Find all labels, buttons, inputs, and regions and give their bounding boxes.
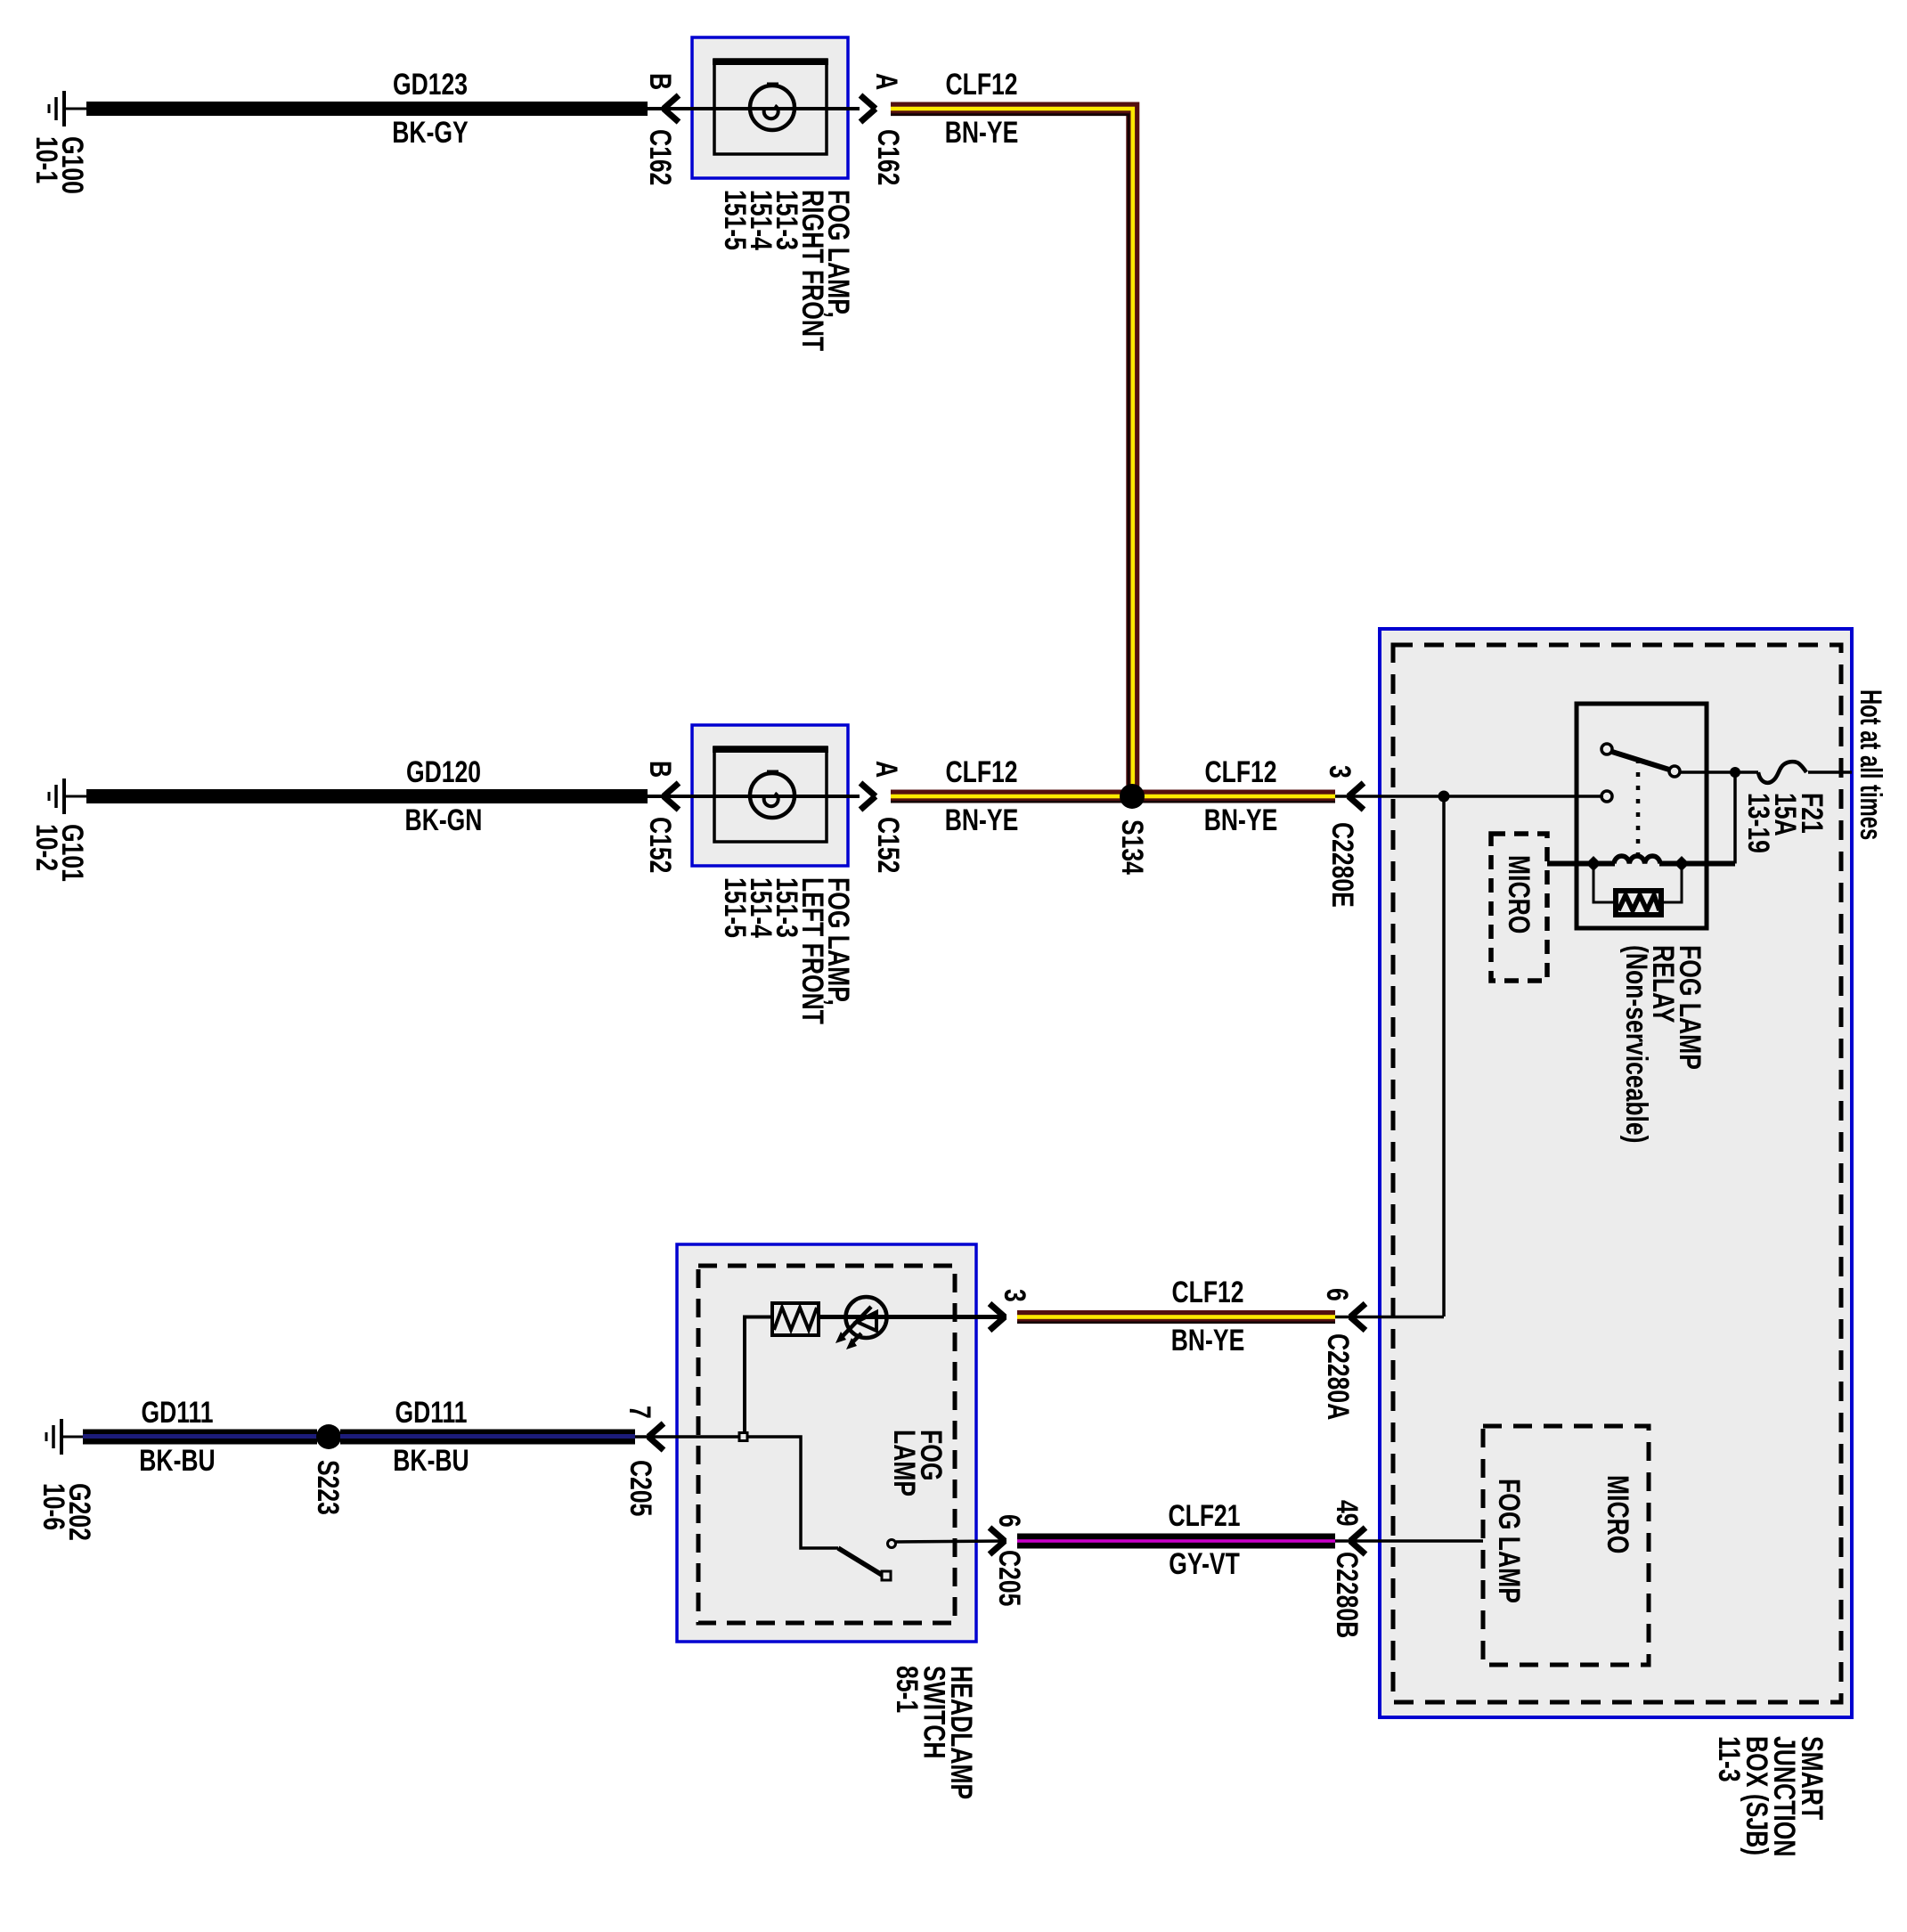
- svg-text:C2280E: C2280E: [1325, 822, 1359, 908]
- switch resistor: [772, 1303, 819, 1335]
- connector arrow B C152: [664, 783, 679, 810]
- svg-text:C162: C162: [871, 129, 905, 185]
- svg-text:B: B: [643, 73, 677, 90]
- node at fuse branch: [1730, 767, 1740, 778]
- connector arrow 3 C2280E: [1335, 795, 1380, 798]
- wire GD123 BK-GY: [86, 102, 648, 116]
- switch indicator lamp: [835, 1297, 887, 1349]
- svg-text:C162: C162: [643, 129, 677, 185]
- ground G101: [49, 779, 87, 814]
- wire to fog lamp left (thin): [648, 795, 860, 798]
- svg-text:MICRO: MICRO: [1502, 855, 1536, 933]
- wire node to fuse: [1735, 770, 1758, 774]
- splice S223: [316, 1424, 341, 1449]
- svg-text:BN-YE: BN-YE: [1171, 1324, 1245, 1357]
- fog lamp, right front box: [692, 37, 848, 178]
- wire CLF12 BN-YE (bottom run): [1017, 1310, 1335, 1324]
- wire vertical from node to C2280A row: [1442, 796, 1446, 1317]
- connector arrow 6 C2280A: [1335, 1316, 1380, 1319]
- connector arrow A C152: [860, 783, 876, 810]
- svg-text:C205: C205: [992, 1550, 1026, 1606]
- connector arrow B C162: [664, 95, 679, 122]
- wire inside SJB to micro fog lamp box: [1380, 1539, 1483, 1543]
- coil junction nodes: [1586, 856, 1601, 871]
- wire to fog lamp right (thin): [648, 107, 860, 110]
- svg-text:BK-BU: BK-BU: [139, 1444, 215, 1478]
- fog lamp relay box: [1577, 704, 1707, 928]
- wire lamp to pin 3: [819, 1315, 1006, 1319]
- wire contact to fuse node: [1679, 770, 1735, 774]
- svg-text:CLF12: CLF12: [945, 68, 1017, 102]
- connector arrow 3 (headlamp switch): [990, 1304, 1005, 1331]
- svg-text:BK-BU: BK-BU: [393, 1444, 469, 1478]
- svg-text:C205: C205: [623, 1460, 657, 1516]
- fuse F21: [1758, 762, 1806, 783]
- svg-text:A: A: [869, 761, 903, 778]
- wire CLF21 GY-VT: [1017, 1534, 1335, 1549]
- smart junction box SJB outline: [1380, 629, 1852, 1717]
- wire CLF12 BN-YE (top run): [891, 109, 1133, 796]
- relay resistor branch: [1593, 864, 1682, 903]
- relay coil line: [1547, 861, 1615, 867]
- bulb, fog lamp right front: [750, 83, 795, 131]
- wire GD111 BK-BU (right): [340, 1430, 635, 1445]
- switch contact to pin 6: [888, 1540, 896, 1548]
- svg-text:FOG LAMP: FOG LAMP: [1492, 1479, 1526, 1603]
- svg-text:BK-GN: BK-GN: [405, 803, 483, 837]
- svg-text:GD120: GD120: [406, 755, 481, 789]
- svg-text:C152: C152: [871, 817, 905, 873]
- connector arrow 6 C205: [990, 1528, 1005, 1554]
- svg-text:3: 3: [1323, 765, 1357, 779]
- svg-text:A: A: [869, 73, 903, 90]
- svg-text:BK-GY: BK-GY: [392, 116, 468, 150]
- svg-text:GD111: GD111: [141, 1396, 213, 1430]
- svg-text:GY-VT: GY-VT: [1169, 1547, 1240, 1581]
- ground G202: [46, 1419, 84, 1455]
- headlamp switch box: [677, 1244, 976, 1642]
- micro dashed box (relay driver): [1491, 834, 1547, 981]
- micro fog lamp dashed box in SJB: [1483, 1426, 1649, 1665]
- svg-text:C2280B: C2280B: [1330, 1552, 1364, 1638]
- wire CLF12 BN-YE (middle run to SJB): [891, 790, 1335, 803]
- svg-text:49: 49: [1330, 1500, 1364, 1527]
- svg-text:S223: S223: [311, 1460, 345, 1515]
- svg-text:BN-YE: BN-YE: [1204, 803, 1278, 837]
- headlamp switch: wire junction to switch blade: [747, 1437, 838, 1548]
- svg-text:BN-YE: BN-YE: [945, 803, 1019, 837]
- relay coil: [1614, 856, 1660, 863]
- relay dotted actuator line: [1636, 759, 1641, 857]
- node junction at x1621: [1438, 791, 1450, 803]
- headlamp switch: junction square: [739, 1433, 747, 1441]
- bulb, fog lamp left front: [750, 770, 795, 819]
- svg-text:MICRO: MICRO: [1601, 1475, 1634, 1553]
- svg-text:7: 7: [623, 1406, 656, 1419]
- svg-text:C2280A: C2280A: [1321, 1333, 1355, 1420]
- svg-text:6: 6: [992, 1514, 1026, 1528]
- wire C2280A row inside SJB: [1380, 1316, 1444, 1319]
- wire node down to coil line: [1733, 772, 1737, 864]
- connector arrow A C162: [860, 95, 876, 122]
- switch blade: [838, 1548, 882, 1575]
- fog lamp, left front box: [692, 725, 848, 866]
- connector arrow 7 C205: [635, 1435, 739, 1439]
- svg-text:S134: S134: [1115, 819, 1149, 875]
- wire inside SJB to relay contact: [1380, 795, 1603, 798]
- svg-text:6: 6: [1320, 1288, 1354, 1301]
- wire fuse to Hot at all times: [1808, 770, 1852, 774]
- svg-text:Hot at all times: Hot at all times: [1854, 689, 1887, 840]
- relay switch contacts: [1601, 744, 1680, 802]
- svg-text:3: 3: [998, 1289, 1031, 1302]
- svg-text:BN-YE: BN-YE: [945, 116, 1019, 150]
- connector arrow 49 C2280B: [1335, 1539, 1380, 1543]
- svg-text:CLF12: CLF12: [1204, 755, 1276, 789]
- svg-text:GD123: GD123: [393, 68, 468, 102]
- svg-text:C152: C152: [643, 817, 677, 873]
- svg-text:CLF21: CLF21: [1168, 1499, 1240, 1533]
- wire junction to resistor: [745, 1317, 772, 1433]
- splice S134: [1120, 784, 1145, 809]
- svg-text:B: B: [643, 761, 677, 778]
- svg-text:GD111: GD111: [395, 1396, 467, 1430]
- relay resistor R: [1616, 891, 1661, 915]
- wire GD111 BK-BU (left): [83, 1430, 317, 1445]
- svg-text:CLF12: CLF12: [945, 755, 1017, 789]
- wire GD120 BK-GN: [86, 789, 648, 803]
- ground G100: [49, 91, 87, 126]
- svg-text:CLF12: CLF12: [1171, 1276, 1243, 1309]
